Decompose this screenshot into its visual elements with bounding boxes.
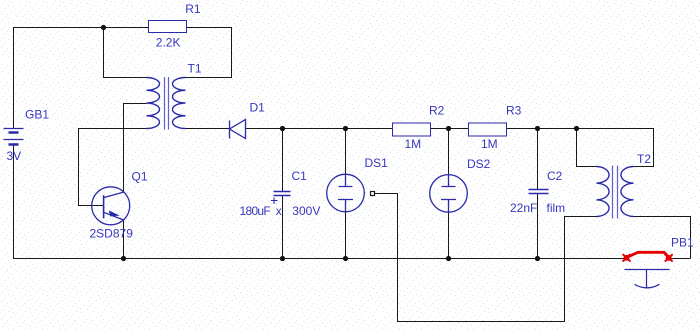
svg-text:1M: 1M [405, 137, 422, 151]
discharge tube DS2 [430, 175, 468, 213]
capacitor C2 [529, 190, 549, 194]
svg-text:Q1: Q1 [132, 169, 148, 183]
svg-text:DS1: DS1 [365, 156, 389, 170]
wire bottom rail from battery - down and right to PB1 [14, 145, 625, 259]
svg-text:3V: 3V [7, 149, 22, 163]
svg-text:R2: R2 [429, 104, 445, 118]
discharge tube DS1 [327, 174, 365, 212]
capacitor C1 [271, 192, 291, 205]
svg-text:PB1: PB1 [671, 235, 694, 249]
svg-text:DS2: DS2 [467, 157, 491, 171]
svg-text:R1: R1 [185, 2, 201, 16]
svg-text:2SD879: 2SD879 [90, 226, 134, 240]
svg-text:R3: R3 [506, 104, 522, 118]
PB1 red lever [627, 252, 669, 257]
junction DS2 bottom [446, 256, 451, 261]
transformer T2 [597, 167, 634, 217]
wire T1 left winding bottom to Q1 base [79, 129, 147, 206]
wire DS2 top [448, 129, 450, 175]
battery GB1 [4, 129, 24, 145]
wire DS1 top [345, 129, 347, 175]
junction DS1 top [343, 126, 348, 131]
wire PB1 right contact [669, 258, 691, 260]
svg-text:T1: T1 [188, 61, 202, 75]
svg-text:22nF: 22nF [510, 201, 537, 215]
svg-text:C1: C1 [292, 169, 308, 183]
wire R3 to T2 right winding top [507, 129, 654, 167]
wire T1 right winding bottom to D1 [186, 128, 230, 130]
junction T2 left top [574, 126, 579, 131]
T1 core [165, 77, 169, 130]
junction Q1 emitter bottom [121, 256, 126, 261]
svg-text:GB1: GB1 [25, 108, 49, 122]
svg-text:D1: D1 [250, 100, 266, 114]
junction DS1 bottom [343, 256, 348, 261]
wire DS1 bottom [345, 212, 347, 259]
PB1 red contact left [623, 255, 630, 261]
resistor R1 [149, 21, 187, 33]
diode D1 [230, 120, 246, 139]
wire T2 right winding bottom to PB1 right [634, 217, 691, 259]
wire Q1 emitter to bottom rail [123, 220, 125, 258]
junction C1 top [280, 126, 285, 131]
wire R1 right to T1 right winding top [186, 28, 232, 78]
wire C2 top [537, 129, 539, 190]
wire top-left rail from battery + up and right to R1 [14, 28, 149, 129]
svg-text:300V: 300V [292, 204, 320, 218]
wire DS1 trigger to T2 left winding bottom [375, 194, 597, 322]
svg-text:T2: T2 [637, 152, 651, 166]
svg-text:180uF: 180uF [240, 204, 271, 218]
junction DS2 top [446, 126, 451, 131]
wire DS2 bottom [448, 212, 450, 258]
wire T1 tap to Q1 collector [124, 104, 147, 193]
PB1 red contact right [665, 255, 672, 261]
T2 core [613, 166, 618, 219]
svg-text:2.2K: 2.2K [156, 35, 181, 49]
junction C1 bottom [280, 256, 285, 261]
pushbutton PB1 [625, 270, 670, 288]
resistor R2 [393, 123, 431, 136]
wire junction to T1 left winding top [104, 28, 147, 78]
wire top rail tap to T2 left winding top [577, 129, 597, 167]
resistor R3 [469, 123, 507, 136]
transformer T1 [147, 78, 186, 129]
junction top rail at T1 left feed [101, 25, 106, 30]
wire D1 to R2 [246, 128, 393, 130]
junction C2 bottom [535, 256, 540, 261]
wire C1 top [282, 129, 284, 192]
Q1 emitter arrow [109, 210, 120, 216]
wire C1 bottom [282, 196, 284, 259]
wire R2 to R3 [431, 128, 469, 130]
svg-text:x: x [276, 204, 282, 218]
wire C2 bottom [537, 194, 539, 259]
svg-text:film: film [547, 201, 566, 215]
svg-text:1M: 1M [481, 137, 498, 151]
junction C2 top [535, 126, 540, 131]
transistor Q1 [92, 187, 130, 225]
DS1 trigger terminal [371, 192, 375, 196]
svg-text:C2: C2 [547, 169, 563, 183]
